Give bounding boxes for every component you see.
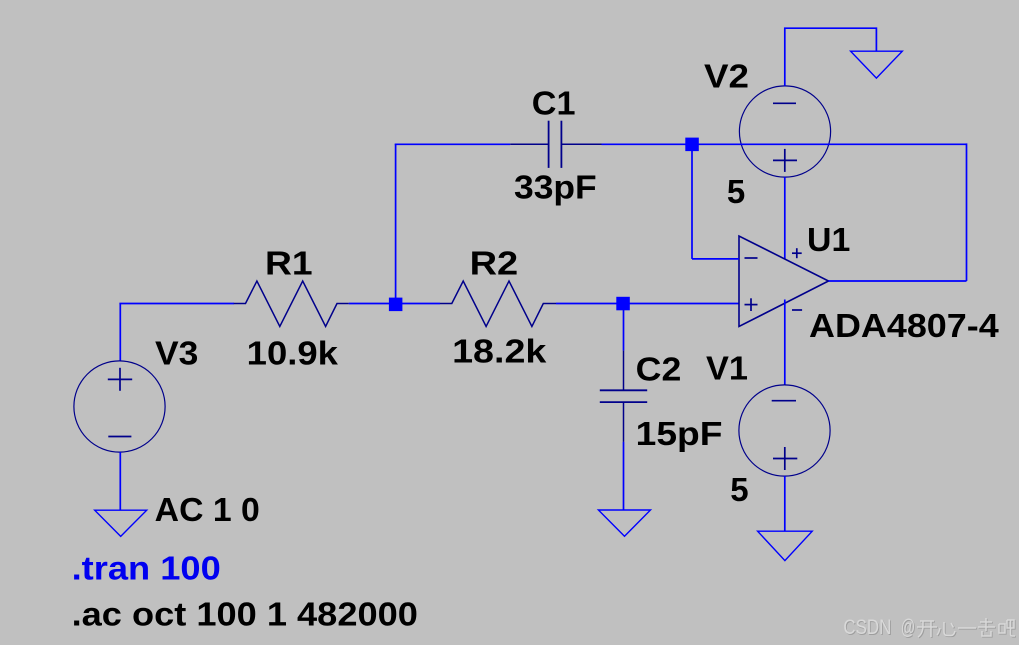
wire node A to R2 xyxy=(401,303,440,305)
svg-text:R1: R1 xyxy=(265,244,313,281)
ground below V1 xyxy=(758,531,813,560)
node A junction square xyxy=(389,298,403,312)
svg-text:V1: V1 xyxy=(706,350,748,387)
svg-text:U1: U1 xyxy=(807,221,850,258)
capacitor C2 xyxy=(600,351,647,442)
wire R2 to node B xyxy=(556,303,618,305)
wire node A to C1 left xyxy=(395,143,511,145)
wire V2 top xyxy=(785,28,877,86)
wire node A up to C1 xyxy=(395,144,397,299)
wire C2 to ground xyxy=(623,442,625,510)
wire V2 bottom to op-amp V+ xyxy=(784,177,786,259)
svg-text:.tran 100: .tran 100 xyxy=(72,549,221,586)
wire op-amp Vminus to V1 xyxy=(784,300,786,386)
ground below C2 xyxy=(598,510,650,536)
ground below V3 xyxy=(95,510,147,536)
svg-text:5: 5 xyxy=(727,173,745,210)
wire V3 to R1 xyxy=(119,303,234,305)
op-amp U1 xyxy=(739,236,829,327)
node B junction square xyxy=(616,297,630,311)
svg-text:C1: C1 xyxy=(532,84,576,121)
wire node C down xyxy=(691,147,693,259)
voltage source V1 xyxy=(739,385,830,476)
voltage source V2 xyxy=(739,86,830,177)
svg-text:V3: V3 xyxy=(155,335,198,372)
svg-text:10.9k: 10.9k xyxy=(247,335,339,372)
svg-text:CSDN: CSDN xyxy=(843,615,891,639)
wire C1 to node C xyxy=(602,143,688,145)
watermark chinese glyphs xyxy=(918,619,1016,638)
svg-text:5: 5 xyxy=(730,471,748,508)
wire V3 bottom xyxy=(119,452,121,510)
wire to op-amp minus input xyxy=(692,258,739,260)
svg-text:33pF: 33pF xyxy=(514,169,597,206)
svg-text:18.2k: 18.2k xyxy=(452,333,547,370)
wire feedback top horizontal xyxy=(695,143,967,145)
voltage source V3 xyxy=(74,361,165,452)
node C junction square xyxy=(685,138,699,152)
wire node B down to C2 xyxy=(623,305,625,351)
vplus mark xyxy=(792,252,802,254)
svg-text:AC 1 0: AC 1 0 xyxy=(155,491,260,528)
svg-text:ADA4807-4: ADA4807-4 xyxy=(809,307,999,344)
plus input mark xyxy=(745,304,758,306)
wire V1 bottom xyxy=(784,476,786,531)
wire op-amp output xyxy=(829,280,967,282)
svg-text:.ac oct 100 1 482000: .ac oct 100 1 482000 xyxy=(72,596,418,633)
resistor R1 xyxy=(234,281,349,327)
wire feedback right vertical xyxy=(966,143,968,281)
ground above right for V2 xyxy=(851,51,903,78)
minus input mark xyxy=(745,257,758,259)
svg-text:R2: R2 xyxy=(470,244,519,281)
wire R1 to node A xyxy=(349,303,390,305)
svg-text:15pF: 15pF xyxy=(636,415,723,452)
vminus mark xyxy=(792,309,802,311)
svg-text:@: @ xyxy=(901,615,916,639)
capacitor C1 xyxy=(510,121,601,168)
wire V3 top vertical xyxy=(119,304,121,362)
resistor R2 xyxy=(440,281,556,327)
watermark CSDN xyxy=(843,615,916,640)
svg-text:V2: V2 xyxy=(704,58,749,95)
svg-text:C2: C2 xyxy=(636,350,682,387)
wire node B to op-amp plus input xyxy=(628,303,739,305)
